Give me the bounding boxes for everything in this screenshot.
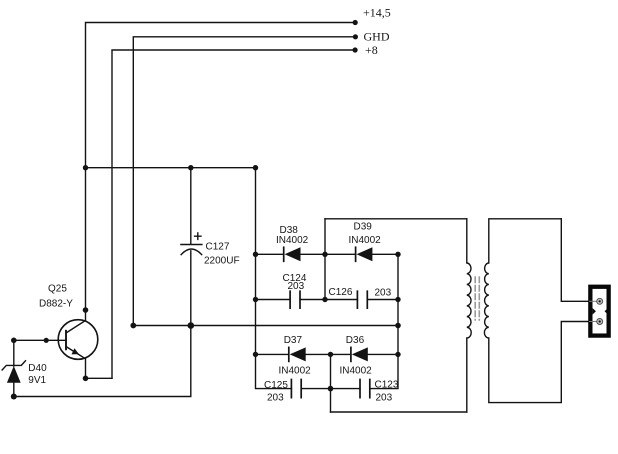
wire D37 cathode side [256, 353, 289, 355]
wire C123 left lead [331, 388, 361, 390]
wire +14,5 net: horizontal top and vertical down to collector [86, 23, 356, 311]
wire D38 anode to center [301, 253, 326, 255]
svg-text:C125: C125 [264, 380, 288, 391]
svg-text:IN4002: IN4002 [340, 365, 373, 376]
transformer T1 primary winding [467, 219, 471, 412]
transistor Q25 collector lead [66, 310, 86, 333]
svg-text:C123: C123 [375, 380, 399, 391]
svg-text:D36: D36 [346, 335, 365, 346]
svg-text:+14,5: +14,5 [363, 5, 391, 19]
diode D38 cathode bar [283, 247, 285, 261]
connector J1 pin 2 lead [589, 321, 600, 323]
transistor Q25 emitter arrow [72, 348, 79, 354]
capacitor C127 curved bottom plate [181, 249, 202, 255]
junction dot top diode row right [395, 252, 400, 257]
junction dot top cap row right [395, 297, 400, 302]
svg-text:D882-Y: D882-Y [39, 299, 73, 310]
wire D37 anode to center [306, 353, 331, 355]
wire D36 anode to right column [368, 353, 398, 355]
wire +8 net: horizontal and vertical down to emitter wire [112, 50, 355, 378]
junction dot rail-C127 line crossing [188, 322, 195, 329]
svg-text:C126: C126 [329, 287, 353, 298]
svg-text:IN4002: IN4002 [349, 235, 382, 246]
capacitor C127 plus lead [195, 233, 201, 239]
junction dot rail to bridge right column [395, 323, 401, 329]
svg-text:IN4002: IN4002 [276, 235, 309, 246]
wire C127 branch upper segment [190, 168, 192, 245]
wire bridge bottom-center column x=330.5 down to primary bottom [330, 354, 332, 412]
svg-text:9V1: 9V1 [28, 375, 46, 386]
junction dot bottom diode row right [395, 352, 400, 357]
junction dot bottom diode row center [328, 352, 333, 357]
wire C126 right lead [367, 299, 398, 301]
wire GHD net: horizontal and vertical down to rail [133, 37, 355, 326]
junction dot base pin [44, 338, 49, 343]
capacitor C127 top plate [181, 244, 202, 246]
junction dot bottom cap row center [328, 386, 334, 392]
capacitor C124 plates [290, 291, 300, 308]
wire secondary right edge to connector pin 1 [561, 219, 589, 301]
diode D39 cathode bar [355, 247, 357, 261]
connector J1 right notch [605, 308, 608, 314]
junction dot top cap row left [253, 297, 258, 302]
diode D37 cathode bar [288, 347, 290, 361]
capacitor C125 plates [291, 380, 301, 398]
wire D38 cathode side [256, 253, 284, 255]
junction dot zener bottom node [11, 394, 17, 400]
capacitor C123 plates [360, 380, 370, 398]
connector J1 body [590, 287, 608, 336]
junction dot base-zener node [11, 338, 17, 344]
svg-text:203: 203 [376, 392, 393, 403]
node GHD terminal dot [353, 34, 358, 39]
junction dot top diode row left [253, 252, 258, 257]
junction dot top cap row center [322, 297, 327, 302]
junction dot bottom diode row left [253, 352, 258, 357]
connector J1 pin 2 [597, 319, 603, 325]
diode D36 triangle [352, 347, 368, 361]
wire C127 branch lower segment down and left to zener return [14, 251, 191, 397]
wire bridge right column x=398 with corner to C123 [370, 254, 398, 388]
wire C124 left lead [256, 299, 291, 301]
zener diode D40 cathode bar with bent ends [2, 361, 25, 370]
svg-text:D37: D37 [284, 335, 303, 346]
connector J1 pin 1 [597, 298, 603, 304]
wire D39 anode to right column [372, 253, 398, 255]
transistor Q25 emitter lead [66, 347, 86, 379]
junction dot rail-C127 branch [188, 165, 193, 170]
junction dot collector node [83, 307, 89, 313]
svg-text:203: 203 [288, 281, 305, 292]
node +14,5 terminal dot [353, 20, 358, 25]
junction dot rail-bridge left column [253, 165, 258, 170]
svg-text:203: 203 [267, 392, 284, 403]
transistor Q25 circle [58, 320, 98, 360]
svg-text:D39: D39 [354, 222, 373, 233]
wire middle rail y=325.5 from GHD corner to bridge right column [133, 325, 398, 327]
wire C124-C126 middle lead [300, 299, 325, 301]
diode D37 triangle [290, 347, 306, 361]
svg-text:Q25: Q25 [48, 284, 67, 295]
junction dot GHD corner [130, 323, 136, 329]
junction dot rail-collector line [83, 165, 88, 170]
wire C126 left lead [325, 299, 357, 301]
junction dot emitter node [83, 376, 89, 382]
connector J1 left notch [593, 308, 596, 314]
wire transformer primary top lead [325, 218, 467, 220]
svg-text:2200UF: 2200UF [204, 256, 240, 267]
wire bridge top-center column x=325 [324, 219, 326, 300]
zener diode D40 bottom lead [13, 383, 15, 397]
junction dot top diode row center [322, 252, 327, 257]
wire D36 cathode side [331, 353, 351, 355]
wire transformer primary bottom lead [331, 411, 467, 413]
connector J1 pin 1 lead [589, 300, 600, 302]
zener diode D40 top lead [13, 340, 15, 366]
diode D36 cathode bar [350, 347, 352, 361]
svg-text:GHD: GHD [364, 30, 390, 44]
wire emitter to +8 vertical [86, 377, 113, 379]
svg-text:+8: +8 [365, 43, 378, 57]
diode D38 triangle [285, 247, 301, 261]
transformer T1 secondary winding with top and bottom loop [484, 219, 589, 403]
svg-text:IN4002: IN4002 [279, 365, 312, 376]
wire D39 cathode side [325, 253, 356, 255]
diode D39 triangle [357, 247, 373, 261]
transformer T1 core [475, 277, 479, 320]
wire C125-C123 middle lead [301, 388, 330, 390]
svg-text:203: 203 [375, 287, 392, 298]
svg-text:C127: C127 [206, 241, 230, 252]
wire base lead of Q25 [14, 339, 66, 341]
svg-text:D40: D40 [28, 363, 47, 374]
wire bridge left column x=255.5 with corner to C125 [256, 168, 292, 389]
node +8 terminal dot [353, 47, 358, 52]
wire upper rail y=167.7 [86, 167, 256, 169]
capacitor C126 plates [357, 291, 367, 308]
transistor Q25 base bar [65, 331, 67, 350]
zener diode D40 triangle [7, 366, 21, 383]
